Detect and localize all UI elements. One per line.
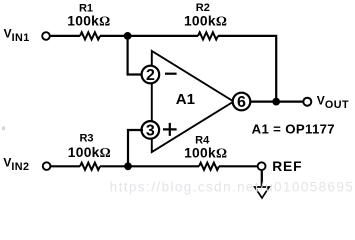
- svg-text:100kΩ: 100kΩ: [68, 145, 111, 160]
- op-amp U1 triangle: [152, 51, 234, 152]
- resistor R2: [198, 32, 218, 39]
- pin 6 circle: [233, 93, 251, 111]
- svg-text:REF: REF: [272, 159, 302, 174]
- svg-text:VOUT: VOUT: [317, 94, 349, 112]
- svg-text:https://blog.csdn.net/u0100586: https://blog.csdn.net/u010058695: [110, 179, 354, 194]
- minus sign (inverting input): [165, 73, 177, 75]
- wire REF to ground: [261, 171, 263, 187]
- pin 3 circle: [142, 121, 160, 139]
- resistor R3: [80, 163, 100, 170]
- svg-text:A1 = OP1177: A1 = OP1177: [252, 122, 335, 137]
- svg-text:3: 3: [146, 123, 155, 140]
- resistor R1: [80, 32, 100, 39]
- node junction bottom (R3/R4/pin3): [124, 162, 132, 170]
- wire pin 3 riser: [128, 130, 143, 166]
- pin 2 circle: [142, 66, 160, 84]
- wire R3 to R4: [100, 165, 199, 167]
- ground: [255, 187, 270, 198]
- terminal REF: [258, 162, 266, 170]
- svg-text:R2: R2: [196, 2, 210, 14]
- node junction output: [272, 98, 280, 106]
- wire top rail: [51, 35, 80, 37]
- svg-text:100kΩ: 100kΩ: [67, 14, 110, 29]
- wire R1 to R2: [100, 35, 198, 37]
- wire bottom rail: VIN2 to R3: [51, 165, 80, 167]
- plus sign (non-inverting input): [163, 123, 177, 136]
- node junction top (R1/R2/feedback): [124, 32, 132, 40]
- svg-text:A1: A1: [176, 91, 195, 108]
- svg-text:VIN1: VIN1: [4, 27, 30, 44]
- terminal VIN1: [42, 32, 50, 40]
- svg-text:100kΩ: 100kΩ: [184, 145, 227, 160]
- svg-text:VIN2: VIN2: [3, 155, 29, 173]
- svg-text:2: 2: [146, 67, 155, 84]
- wire R2 to output node: [218, 36, 276, 102]
- wire R4 to REF terminal: [219, 165, 257, 167]
- wire output to VOUT terminal: [251, 100, 303, 102]
- svg-text:6: 6: [237, 94, 246, 111]
- resistor R4: [199, 163, 219, 170]
- svg-text:100kΩ: 100kΩ: [184, 14, 227, 29]
- wire feedback to pin 2: [128, 36, 143, 75]
- terminal VIN2: [43, 162, 51, 170]
- svg-text:R3: R3: [79, 133, 93, 145]
- terminal VOUT: [303, 98, 311, 106]
